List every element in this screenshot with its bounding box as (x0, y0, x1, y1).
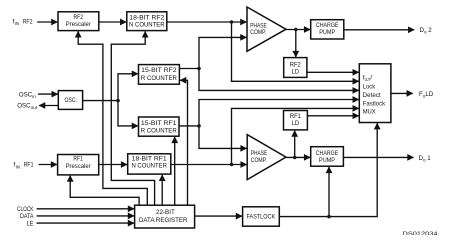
wire register to N1 counter bottom (161, 175, 163, 205)
svg-text:IN: IN (16, 164, 20, 169)
wire RF1 LD output to MUX input 6 (307, 115, 358, 117)
svg-text:RF1: RF1 (24, 162, 34, 169)
svg-text:/: / (370, 74, 372, 81)
svg-text:RF1: RF1 (73, 156, 83, 163)
svg-text:DS012034: DS012034 (403, 231, 438, 235)
node OSC distribution (116, 99, 120, 103)
svg-text:FASTLOCK: FASTLOCK (247, 213, 276, 220)
wire LE input (37, 222, 134, 224)
wire CLOCK input (37, 208, 134, 210)
svg-text:OSC.: OSC. (65, 97, 78, 104)
svg-text:FoLD: FoLD (419, 91, 434, 99)
block 18-BIT RF1 N COUNTER (128, 154, 171, 174)
svg-text:Prescaler: Prescaler (66, 21, 91, 28)
wire register to RF1 prescaler bottom (70, 176, 139, 206)
block CHARGE PUMP 1 (311, 147, 344, 167)
wire register to N2 counter bottom (111, 31, 154, 205)
wire RF2 LD output to MUX input 1 (307, 71, 359, 73)
wire R2 up branch to phase comp 2 input 2 (199, 37, 246, 68)
svg-text:CLOCK: CLOCK (17, 206, 34, 213)
svg-text:N COUNTER: N COUNTER (131, 163, 167, 170)
wire N1 branch up to MUX input 5 (232, 108, 359, 164)
node N2 output branch (230, 20, 234, 24)
block 22-BIT DATA REGISTER (135, 205, 195, 228)
svg-text:MUX: MUX (363, 109, 376, 116)
block RF2 LD (284, 58, 307, 78)
wire register to R1 counter bottom (174, 137, 176, 205)
op-amp phase comparator 2 (247, 7, 286, 51)
wire OSC down branch to R1 counter (118, 101, 138, 126)
svg-text:LD: LD (292, 120, 300, 127)
wire OSC output to junction (83, 100, 118, 102)
svg-text:DATA: DATA (20, 213, 34, 220)
wire fastlock branch up to charge pump 1 (328, 167, 330, 217)
block OSC (58, 91, 82, 110)
svg-text:Detect: Detect (363, 92, 381, 99)
svg-text:N COUNTER: N COUNTER (129, 21, 165, 28)
block fOUT lock detect fastlock MUX (359, 64, 391, 123)
wire N2 branch to MUX input 2 (232, 22, 359, 81)
wire charge pump 2 to Do2 (344, 29, 414, 31)
wire R1 counter output (179, 125, 199, 127)
svg-text:DATA REGISTER: DATA REGISTER (139, 217, 188, 224)
op-amp phase comparator 1 (247, 135, 286, 180)
svg-text:PUMP: PUMP (319, 29, 335, 36)
node fastlock charge pump branch (327, 215, 331, 219)
wire R2 down branch to MUX input 3 (199, 69, 359, 91)
block 15-BIT RF2 R COUNTER (139, 65, 180, 85)
block 18-BIT RF2 N COUNTER (127, 12, 167, 31)
wire data register to FASTLOCK (195, 215, 242, 217)
svg-text:OSCout: OSCout (17, 103, 38, 111)
svg-text:LD: LD (292, 69, 300, 76)
svg-text:Do 2: Do 2 (420, 27, 433, 35)
block FASTLOCK (243, 207, 280, 226)
wire register to RF2 prescaler bottom (78, 31, 147, 205)
svg-text:Fastlock: Fastlock (363, 100, 386, 107)
svg-text:RF2: RF2 (23, 18, 33, 25)
svg-text:R COUNTER: R COUNTER (141, 127, 178, 134)
wire OSC in arrow (38, 93, 58, 95)
wire DATA input (37, 215, 134, 217)
svg-text:OSCin: OSCin (19, 91, 36, 99)
svg-text:18-BIT RF1: 18-BIT RF1 (132, 156, 168, 163)
wire N1 counter output to phase comp 1 input 2 (171, 164, 247, 166)
wire RF2 prescaler to N counter (99, 21, 126, 23)
svg-text:COMP.: COMP. (250, 29, 266, 36)
wire OSC up branch to R2 counter (118, 74, 138, 101)
wire MUX output FoLD (391, 92, 413, 94)
block RF1 LD (284, 111, 308, 130)
svg-text:R COUNTER: R COUNTER (141, 75, 178, 82)
svg-text:PUMP: PUMP (319, 157, 335, 164)
svg-text:Do 1: Do 1 (419, 155, 432, 163)
svg-text:RF1: RF1 (290, 113, 302, 120)
node R1 output branch (197, 124, 201, 128)
wire register to R2 counter right edge (180, 80, 187, 205)
svg-text:Lock: Lock (363, 84, 376, 91)
svg-text:15-BIT RF2: 15-BIT RF2 (141, 67, 177, 74)
svg-text:15-BIT RF1: 15-BIT RF1 (141, 120, 177, 127)
block RF1 Prescaler (58, 155, 99, 175)
wire phase comp 2 output down to RF2 LD (295, 30, 297, 57)
wire phase comp 1 output to charge pump 1 (286, 156, 310, 158)
wire fin RF1 input arrow (39, 164, 57, 166)
svg-text:COMP.: COMP. (251, 157, 267, 164)
svg-text:LE: LE (27, 220, 34, 227)
node phase comp 2 output (294, 28, 298, 32)
wire phase comp 2 output to charge pump 2 (286, 29, 310, 31)
wire N2 counter output to phase comp 2 input 1 (167, 21, 247, 23)
svg-text:Prescaler: Prescaler (66, 163, 91, 170)
svg-text:22-BIT: 22-BIT (156, 209, 175, 216)
svg-text:RF2: RF2 (290, 62, 302, 69)
wire fin RF2 input arrow (37, 21, 57, 23)
node N1 output branch (230, 163, 234, 167)
wire R1 up branch to MUX input 4 (199, 100, 359, 126)
node R2 output branch (197, 67, 201, 71)
node phase comp 1 output (293, 156, 297, 160)
wire charge pump 1 to Do1 (343, 156, 413, 158)
block CHARGE PUMP 2 (311, 20, 344, 39)
wire phase comp 1 output up to RF1 LD (294, 131, 296, 158)
wire R2 counter output (179, 68, 199, 70)
wire FASTLOCK output to MUX bottom (279, 123, 377, 216)
wire OSC out arrow (39, 105, 58, 107)
wire R1 down branch to phase comp 1 input 1 (199, 126, 247, 148)
svg-text:IN: IN (15, 21, 19, 26)
wire RF1 prescaler to N1 counter (99, 164, 127, 166)
block 15-BIT RF1 R COUNTER (139, 117, 180, 136)
block RF2 Prescaler (58, 12, 99, 31)
